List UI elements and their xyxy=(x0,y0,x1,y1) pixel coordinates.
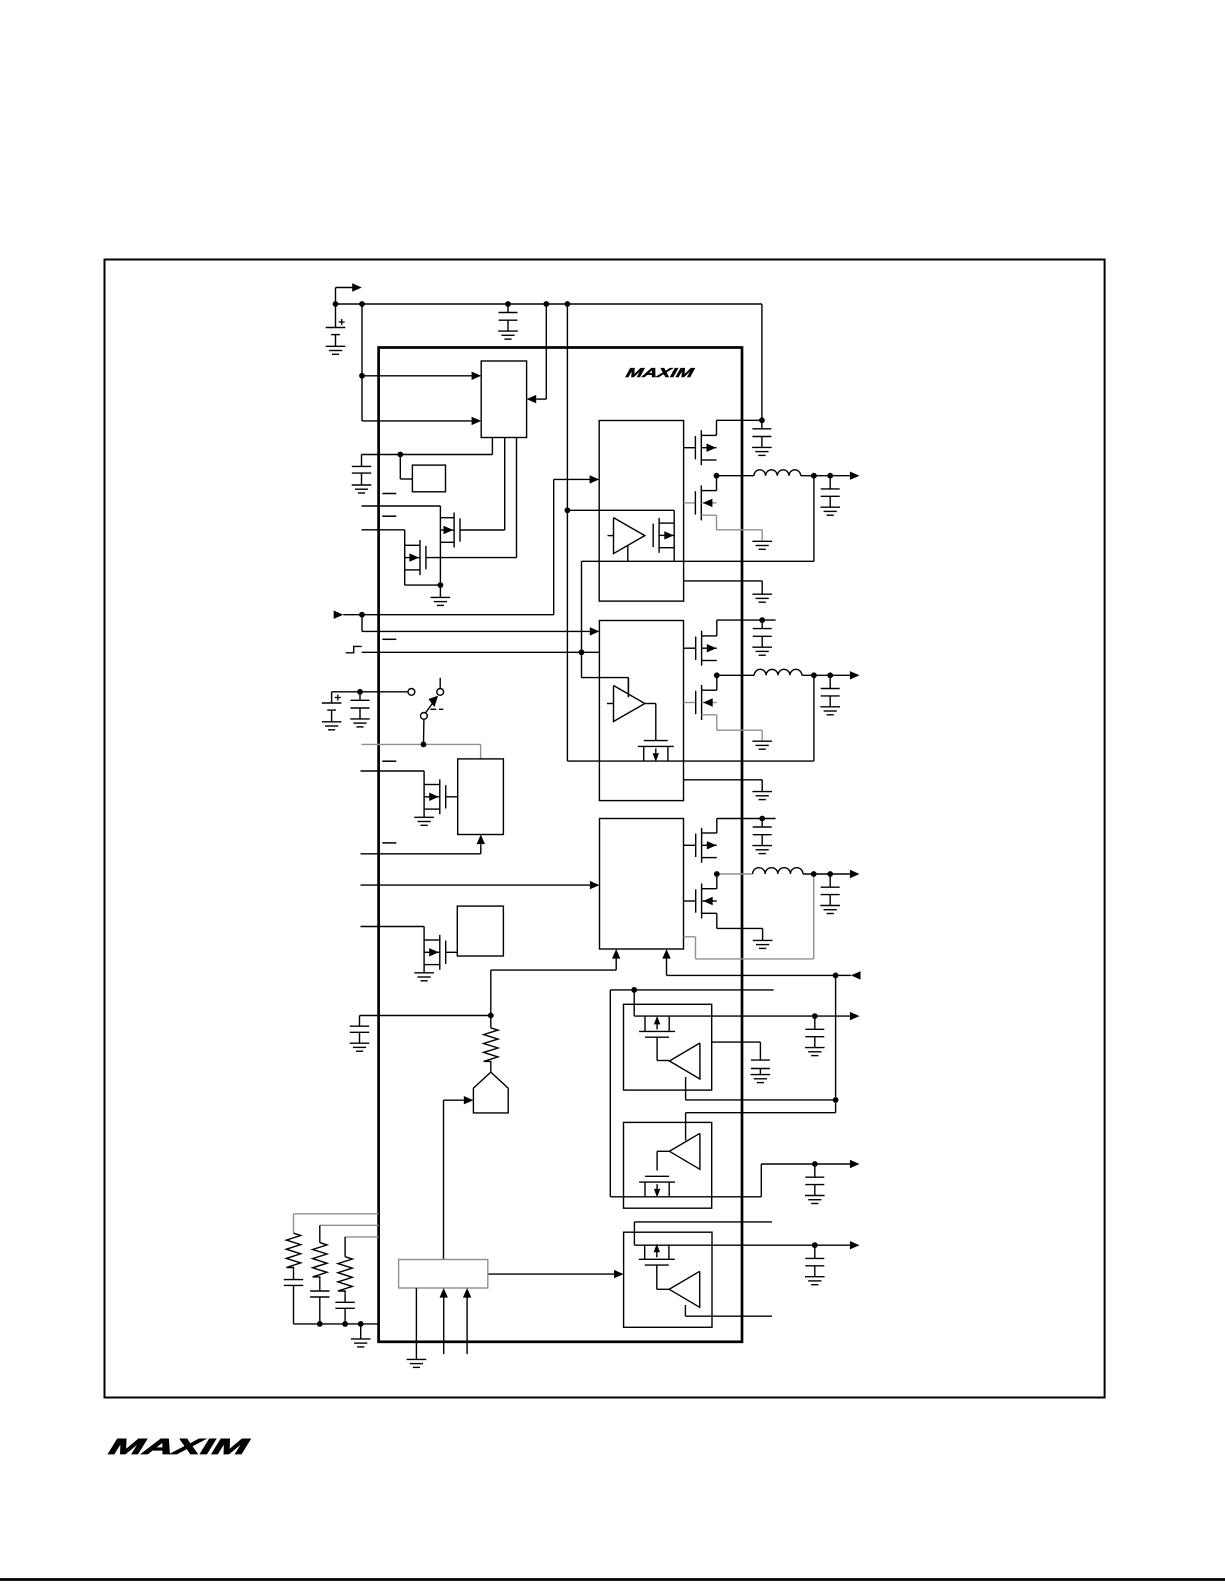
svg-text:MAXIM: MAXIM xyxy=(107,1435,252,1460)
svg-text:MAXIM: MAXIM xyxy=(624,365,696,380)
